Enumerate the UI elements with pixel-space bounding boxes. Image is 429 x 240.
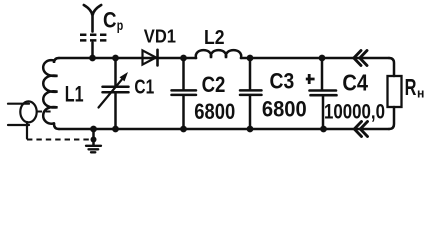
phone jack bottom line bbox=[8, 124, 29, 126]
capacitor C1 bottom lead bbox=[114, 94, 117, 130]
svg-text:C: C bbox=[103, 8, 117, 33]
svg-text:p: p bbox=[117, 18, 124, 33]
node C1 top junction bbox=[112, 55, 119, 62]
svg-text:н: н bbox=[417, 86, 424, 101]
capacitor C1 plates bbox=[103, 87, 129, 93]
wire right side top: bus to resistor bbox=[389, 58, 394, 76]
node ground/bottom bus junction bbox=[90, 126, 97, 133]
capacitor C3 top lead bbox=[249, 58, 252, 89]
inductor L1 bbox=[43, 60, 57, 123]
capacitor C2 bottom lead bbox=[182, 96, 185, 129]
node C4 bottom junction bbox=[320, 126, 327, 133]
svg-text:6800: 6800 bbox=[262, 97, 307, 122]
svg-text:C3: C3 bbox=[270, 69, 295, 94]
svg-text:VD1: VD1 bbox=[144, 25, 176, 46]
svg-text:10000,0: 10000,0 bbox=[324, 101, 385, 124]
wire bottom bus bbox=[59, 128, 389, 131]
ground stem bbox=[92, 129, 95, 145]
wire top-left corner into L1 bbox=[54, 58, 59, 63]
dashed link phone to coil tap bbox=[37, 111, 53, 113]
svg-text:C1: C1 bbox=[134, 76, 154, 98]
antenna mast and arms bbox=[84, 5, 101, 32]
resistor Rн body bbox=[388, 76, 402, 107]
node L2/C3 junction bbox=[247, 55, 254, 62]
wire L1 bottom to bottom bus corner bbox=[54, 123, 59, 129]
wire resistor bottom to bottom bus bbox=[389, 107, 394, 129]
phone jack ellipse bbox=[20, 101, 36, 122]
capacitor Cp dashed plate top bbox=[80, 33, 107, 36]
svg-text:C2: C2 bbox=[202, 72, 226, 97]
capacitor C4 top lead bbox=[321, 58, 324, 89]
diode VD1 cathode bar bbox=[156, 50, 159, 66]
connector chevrons bottom wire bbox=[354, 122, 367, 137]
wire top bus left of L2 bbox=[59, 57, 196, 60]
connector chevrons top wire bbox=[354, 51, 367, 66]
dashed link phone to ground bbox=[27, 139, 92, 141]
svg-text:L1: L1 bbox=[65, 81, 84, 106]
capacitor C1 top lead bbox=[114, 58, 117, 86]
inductor L2 bbox=[196, 50, 241, 58]
capacitor C2 plates bbox=[172, 90, 197, 95]
wire antenna to top bus bbox=[91, 43, 94, 59]
node antenna/top bus junction bbox=[89, 55, 96, 62]
capacitor Cp dashed plate bottom bbox=[80, 39, 107, 42]
ground bars bbox=[86, 146, 101, 153]
capacitor C1 variable arrow bbox=[99, 79, 123, 107]
node C2 bottom junction bbox=[180, 126, 187, 133]
node C2/diode/L2 junction bbox=[180, 55, 187, 62]
plus sign of C4 bbox=[306, 74, 315, 84]
svg-text:R: R bbox=[405, 74, 417, 100]
node C3 bottom junction bbox=[247, 126, 254, 133]
phone jack top line bbox=[8, 103, 29, 105]
svg-text:L2: L2 bbox=[204, 27, 225, 49]
svg-text:C4: C4 bbox=[342, 70, 368, 96]
capacitor C2 top lead bbox=[182, 58, 185, 89]
node C4 top junction bbox=[319, 55, 326, 62]
wire top bus right of L2 bbox=[241, 57, 389, 60]
phone jack stem bbox=[26, 122, 28, 139]
capacitor C1 arrowhead bbox=[120, 72, 129, 81]
capacitor C4 bottom lead bbox=[322, 96, 325, 129]
diode VD1 triangle bbox=[143, 50, 157, 64]
node dashed/ground stem junction bbox=[91, 137, 97, 143]
capacitor C3 plates bbox=[240, 90, 262, 95]
capacitor C3 bottom lead bbox=[249, 96, 252, 129]
svg-text:6800: 6800 bbox=[194, 99, 235, 124]
capacitor C4 plates bbox=[310, 91, 337, 96]
node C1 bottom junction bbox=[112, 126, 119, 133]
